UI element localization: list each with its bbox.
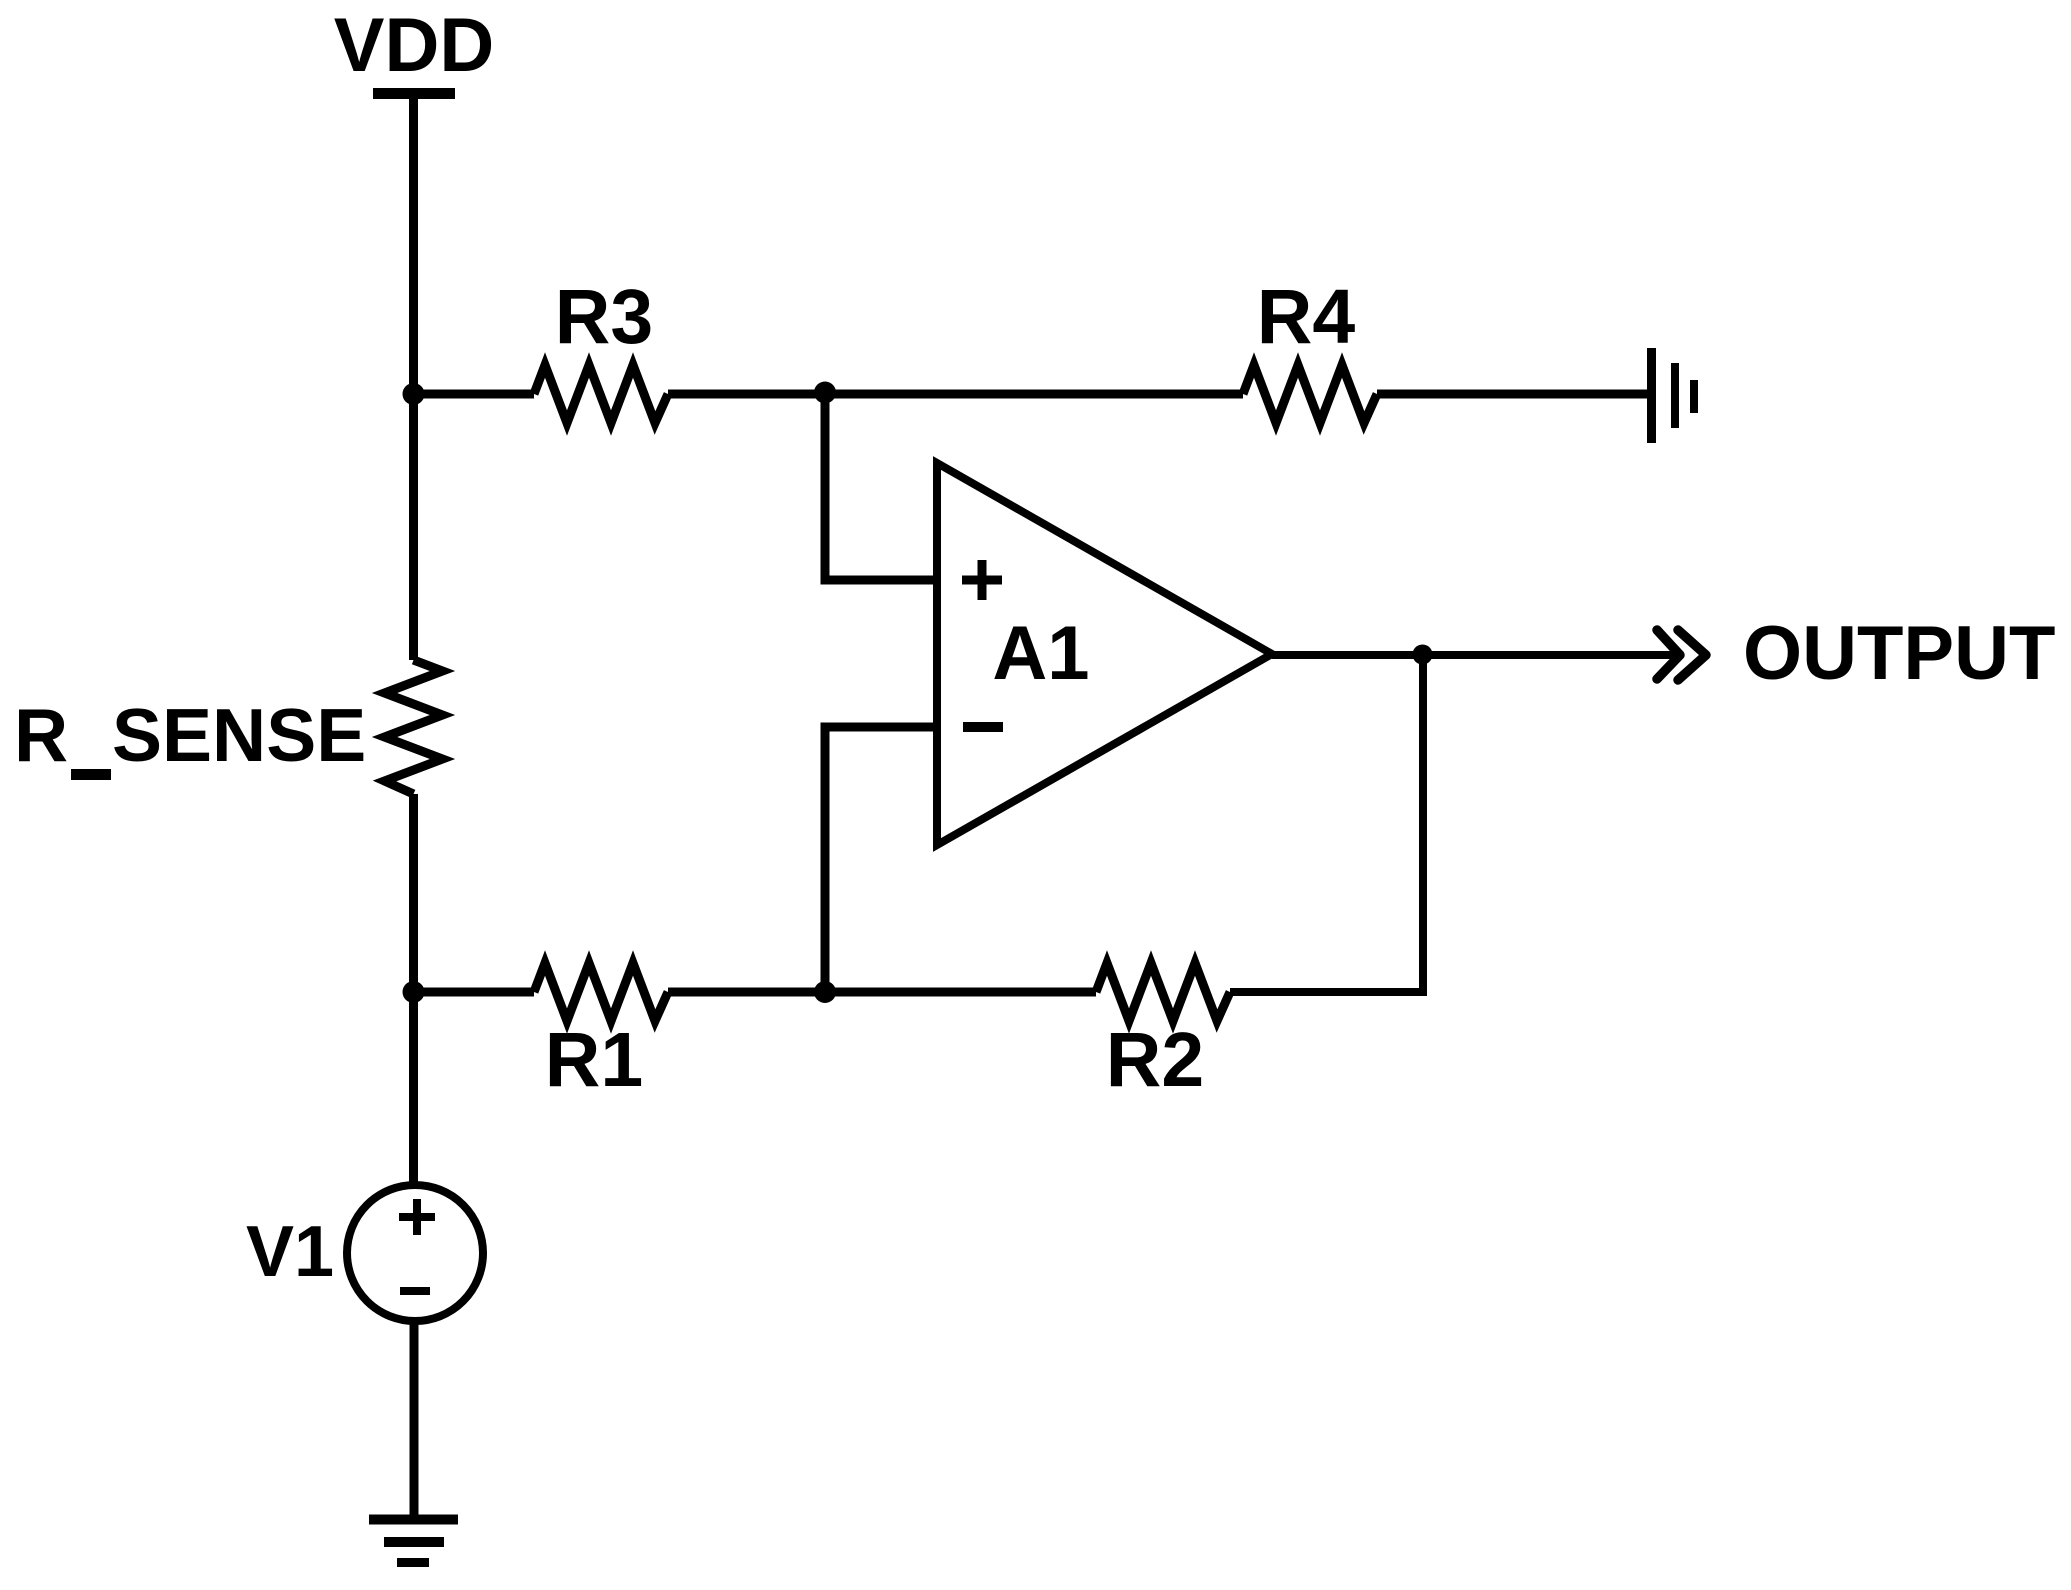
svg-text:A1: A1 bbox=[992, 611, 1089, 696]
op-amp + input marker bbox=[962, 560, 1002, 600]
svg-text:V1: V1 bbox=[246, 1212, 334, 1292]
node B junction dot bbox=[814, 382, 836, 404]
wire R1 to node C bbox=[668, 988, 825, 997]
resistor R3 bbox=[534, 365, 668, 423]
resistor R_SENSE with leads bbox=[385, 394, 443, 992]
svg-text:R1: R1 bbox=[545, 1017, 643, 1103]
svg-text:R4: R4 bbox=[1257, 274, 1356, 360]
wire node C to R2 bbox=[825, 988, 1096, 997]
node C junction dot bbox=[814, 981, 836, 1003]
node D output junction dot bbox=[1413, 645, 1433, 665]
svg-text:R3: R3 bbox=[555, 274, 653, 360]
resistor R1 bbox=[534, 963, 668, 1021]
power symbol VDD bar bbox=[373, 88, 455, 99]
resistor R4 bbox=[1243, 365, 1377, 423]
ground right (rotated bars) bbox=[1652, 348, 1695, 443]
resistor R2 bbox=[1096, 963, 1230, 1021]
wire op-amp - input to node C bbox=[825, 727, 937, 992]
wire node B down to op-amp + input bbox=[825, 394, 937, 580]
output chevron arrow bbox=[1657, 630, 1706, 680]
resistor R_SENSE label bbox=[14, 693, 366, 780]
ground bottom bbox=[369, 1520, 458, 1563]
svg-text:OUTPUT: OUTPUT bbox=[1743, 611, 2055, 696]
svg-text:R2: R2 bbox=[1106, 1017, 1204, 1103]
node A junction dot bbox=[403, 383, 425, 405]
wire feedback: output node down and left to R2 bbox=[1230, 655, 1423, 992]
wire R3 to node B and on to R4 bbox=[668, 390, 1243, 399]
wire node E to R1 bbox=[414, 988, 535, 997]
wire R4 to right ground bbox=[1377, 390, 1647, 399]
wire V1 to ground bbox=[410, 1318, 419, 1519]
node E junction dot bbox=[403, 981, 425, 1003]
svg-text:SENSE: SENSE bbox=[112, 693, 366, 777]
voltage source V1 bbox=[347, 1185, 483, 1321]
wire node E to V1 bbox=[409, 992, 418, 1188]
op-amp A1 bbox=[937, 463, 1272, 845]
wire node A to R3 bbox=[414, 390, 535, 399]
wire op-amp output bbox=[1272, 651, 1676, 659]
op-amp - input marker bbox=[963, 722, 1003, 732]
svg-text:VDD: VDD bbox=[334, 3, 494, 88]
wire VDD to node A bbox=[409, 97, 418, 392]
svg-text:R: R bbox=[14, 693, 68, 777]
